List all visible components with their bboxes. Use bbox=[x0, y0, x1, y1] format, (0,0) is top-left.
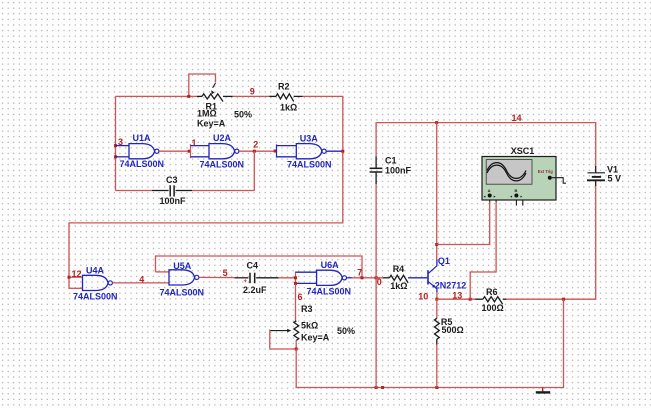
wire bottom rail bbox=[296, 387, 564, 389]
XSC1 pin stubs B bbox=[515, 200, 517, 206]
svg-text:7: 7 bbox=[357, 268, 362, 278]
resistor R2 bbox=[270, 95, 277, 97]
junction node0 bbox=[375, 276, 378, 279]
wire emitter to R6 bbox=[437, 298, 475, 300]
U4A gate body bbox=[83, 275, 109, 290]
svg-text:◂: ◂ bbox=[509, 194, 512, 198]
wire C3 right to node2 bbox=[192, 190, 254, 192]
svg-text:A: A bbox=[488, 188, 491, 193]
junction top rail bbox=[435, 121, 438, 124]
junction U2A input bbox=[188, 150, 191, 153]
svg-text:74ALS00N: 74ALS00N bbox=[73, 292, 118, 302]
junction A- tap bbox=[469, 298, 472, 301]
junction bottom b bbox=[381, 386, 384, 389]
wire U6A output bbox=[347, 277, 352, 279]
junction U6A input b bbox=[294, 282, 297, 285]
wire U5A feedback loop top bbox=[156, 256, 363, 278]
junction emitter node bbox=[435, 298, 438, 301]
svg-text:74ALS00N: 74ALS00N bbox=[200, 159, 245, 169]
XSC1 ext trig terminal bbox=[548, 176, 552, 180]
wire U5A output bbox=[199, 276, 234, 278]
U6A input tie bar bbox=[295, 272, 297, 285]
wire emitter down bbox=[436, 292, 438, 299]
wire U2A output bbox=[239, 150, 276, 152]
svg-text:U6A: U6A bbox=[321, 260, 340, 270]
svg-text:C1: C1 bbox=[385, 156, 397, 166]
wire scope A- probe bbox=[470, 202, 496, 299]
svg-text:R3: R3 bbox=[301, 304, 313, 314]
resistor R4 bbox=[383, 277, 390, 279]
junction U3A input bbox=[274, 150, 277, 153]
svg-text:C4: C4 bbox=[247, 261, 259, 271]
svg-text:U3A: U3A bbox=[300, 133, 319, 143]
U3A gate body bbox=[296, 144, 322, 159]
svg-text:5 V: 5 V bbox=[608, 173, 622, 183]
junction bottom a bbox=[375, 386, 378, 389]
svg-text:Key=A: Key=A bbox=[301, 333, 330, 343]
XSC1 sine wave bbox=[487, 163, 526, 179]
svg-text:12: 12 bbox=[72, 269, 82, 279]
junction scope A+ tap bbox=[435, 243, 438, 246]
junction bottom right rail bbox=[562, 298, 565, 301]
svg-text:74ALS00N: 74ALS00N bbox=[307, 286, 352, 296]
junction bottom R5 bbox=[435, 386, 438, 389]
svg-text:74ALS00N: 74ALS00N bbox=[160, 287, 205, 297]
svg-text:100nF: 100nF bbox=[160, 196, 187, 206]
junction C3 tap bbox=[253, 150, 256, 153]
svg-text:5kΩ: 5kΩ bbox=[301, 320, 318, 330]
XSC1 pin stubs A bbox=[489, 200, 491, 203]
wire C4 to U6A bbox=[279, 277, 296, 279]
U5A gate body bbox=[169, 270, 195, 285]
svg-text:R4: R4 bbox=[393, 264, 405, 274]
capacitor C1 bbox=[375, 157, 377, 169]
U3A input tie bar bbox=[276, 144, 278, 157]
wire node0 rail bottom bbox=[375, 184, 377, 388]
svg-text:U4A: U4A bbox=[86, 265, 105, 275]
wire U1A output bbox=[159, 150, 190, 152]
wire node3 left rail bbox=[115, 96, 117, 190]
U6A gate body bbox=[317, 270, 343, 285]
svg-text:2.2uF: 2.2uF bbox=[243, 285, 267, 295]
svg-text:4: 4 bbox=[139, 275, 144, 285]
svg-text:74ALS00N: 74ALS00N bbox=[120, 159, 165, 169]
junction U1A input a bbox=[114, 144, 117, 147]
wire node12 drop to U4A bbox=[68, 223, 70, 289]
svg-text:14: 14 bbox=[512, 113, 522, 123]
junction U3A output bbox=[341, 150, 344, 153]
svg-text:C3: C3 bbox=[166, 175, 178, 185]
U1A gate body bbox=[129, 144, 155, 159]
junction U1A input b bbox=[114, 155, 117, 158]
wire collector rail bbox=[436, 123, 438, 260]
R3 wiper arrow bbox=[270, 330, 289, 332]
wire U3A output bbox=[326, 150, 342, 152]
wire top loop bbox=[116, 95, 198, 97]
svg-text:500Ω: 500Ω bbox=[442, 325, 464, 335]
XSC1 terminal B bbox=[514, 194, 518, 198]
svg-text:9: 9 bbox=[250, 87, 255, 97]
svg-text:U1A: U1A bbox=[133, 133, 152, 143]
svg-text:50%: 50% bbox=[337, 326, 355, 336]
battery V1 bbox=[595, 123, 597, 166]
wire top rail node14 bbox=[376, 122, 597, 124]
junction node7 bbox=[361, 276, 364, 279]
resistor R5 bbox=[436, 299, 438, 318]
svg-text:▸: ▸ bbox=[520, 194, 523, 198]
svg-text:XSC1: XSC1 bbox=[511, 146, 535, 156]
wire feedback bottom bbox=[68, 222, 343, 224]
wire right rail node12 bbox=[342, 96, 344, 222]
svg-text:2: 2 bbox=[253, 139, 258, 149]
transistor Q1 bbox=[427, 270, 429, 284]
wire scope A+ probe bbox=[437, 202, 490, 245]
potentiometer R1 bbox=[197, 95, 202, 97]
svg-text:B: B bbox=[515, 188, 518, 193]
svg-text:R6: R6 bbox=[486, 287, 498, 297]
svg-text:1: 1 bbox=[192, 138, 197, 148]
svg-text:R2: R2 bbox=[278, 82, 290, 92]
svg-text:3: 3 bbox=[118, 137, 123, 147]
svg-text:10: 10 bbox=[418, 291, 428, 301]
wire U5A lower input bbox=[168, 282, 170, 284]
wire R3 wiper loop bbox=[270, 330, 296, 350]
svg-text:100Ω: 100Ω bbox=[482, 303, 504, 313]
XSC1 terminal A bbox=[488, 194, 492, 198]
junction R3 bottom bbox=[295, 348, 298, 351]
wire bottom right vertical bbox=[563, 299, 565, 388]
potentiometer R3 bbox=[295, 284, 297, 321]
svg-text:◂: ◂ bbox=[483, 194, 486, 198]
junction node12 bbox=[68, 276, 71, 279]
svg-text:74ALS00N: 74ALS00N bbox=[287, 159, 332, 169]
svg-text:1kΩ: 1kΩ bbox=[280, 103, 297, 113]
resistor R6 bbox=[475, 298, 483, 300]
ground bbox=[542, 388, 544, 392]
wire R6 right bbox=[506, 298, 596, 300]
capacitor C4 bbox=[235, 277, 249, 279]
svg-text:U2A: U2A bbox=[213, 133, 232, 143]
svg-text:Ext Trig: Ext Trig bbox=[538, 169, 554, 174]
svg-text:▸: ▸ bbox=[493, 194, 496, 198]
oscilloscope XSC1 bbox=[482, 157, 556, 201]
svg-text:0: 0 bbox=[377, 277, 382, 287]
svg-text:100nF: 100nF bbox=[385, 166, 412, 176]
junction U6A input a bbox=[294, 276, 297, 279]
svg-text:U5A: U5A bbox=[173, 261, 192, 271]
U1A input pins bbox=[116, 145, 130, 147]
svg-text:Key=A: Key=A bbox=[197, 118, 226, 128]
wire node0 rail top bbox=[375, 123, 377, 157]
U2A input tie bar bbox=[190, 144, 192, 158]
svg-text:50%: 50% bbox=[234, 110, 252, 120]
wire R3 to bottom rail bbox=[295, 349, 297, 388]
svg-text:+: + bbox=[244, 279, 248, 285]
svg-text:1kΩ: 1kΩ bbox=[390, 281, 407, 291]
svg-text:1MΩ: 1MΩ bbox=[197, 109, 217, 119]
wire U4A output bbox=[113, 282, 169, 284]
capacitor C3 bbox=[116, 190, 153, 192]
U2A gate body bbox=[209, 144, 235, 159]
svg-text:2N2712: 2N2712 bbox=[435, 280, 467, 290]
junction R1 left bbox=[187, 95, 190, 98]
svg-text:5: 5 bbox=[223, 268, 228, 278]
svg-text:Q1: Q1 bbox=[438, 256, 450, 266]
svg-text:6: 6 bbox=[298, 292, 303, 302]
